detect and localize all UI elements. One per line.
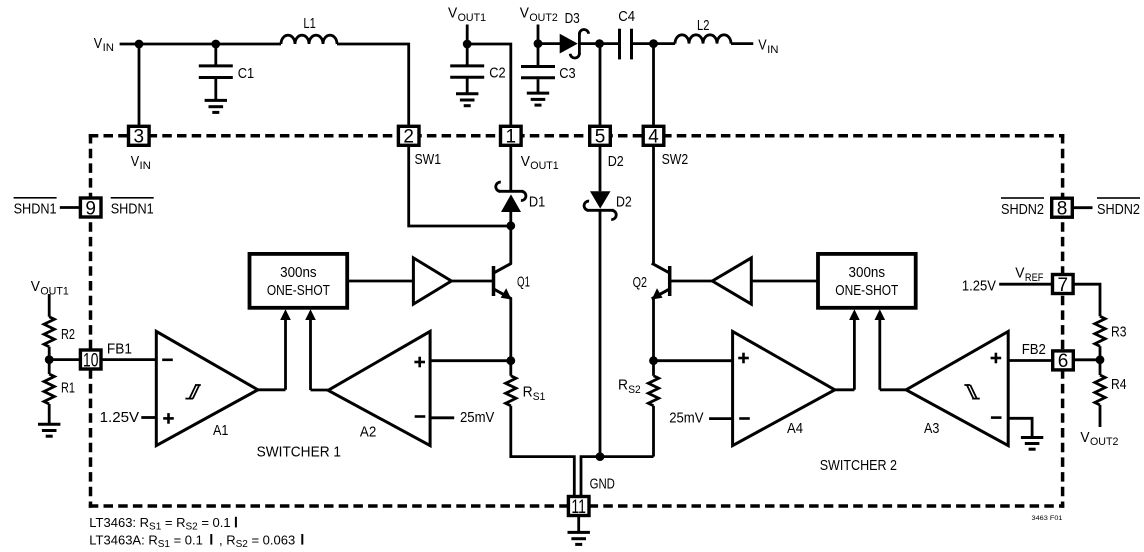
wire D1 node to Q1 collector — [509, 225, 512, 264]
overline SHDN1 pin name — [111, 197, 154, 199]
svg-text:REF: REF — [1025, 272, 1044, 284]
resistor RS2 — [648, 376, 658, 406]
svg-text:V: V — [448, 4, 457, 21]
wire A3 - input to ground — [1008, 418, 1032, 437]
diode D2 (Schottky) — [584, 191, 616, 219]
wire D3 node down to pin 5 — [599, 44, 602, 125]
arrow A3 to one-shot 2 — [878, 318, 881, 390]
wire pin 8 to SHDN2 label — [1073, 206, 1093, 209]
wire node to pin 1 — [467, 44, 511, 125]
wire one-shot 2 to buffer 2 — [751, 280, 818, 283]
svg-text:L1: L1 — [303, 15, 315, 32]
svg-text:R4: R4 — [1111, 376, 1127, 393]
ground at C2 — [456, 94, 478, 106]
ground at C3 — [527, 93, 549, 105]
svg-text:V: V — [758, 37, 766, 54]
diode D3 (Schottky) — [560, 29, 589, 58]
wire R2 bottom through node to R1 top — [48, 347, 51, 374]
ground at A3 — [1021, 438, 1043, 450]
svg-text:300ns: 300ns — [280, 265, 317, 281]
wire A4 output to one-shot 2 arrow — [835, 388, 855, 391]
svg-text:25mV: 25mV — [669, 410, 703, 427]
svg-text:Q2: Q2 — [633, 274, 647, 291]
svg-text:1.25V: 1.25V — [100, 409, 140, 426]
svg-text:2: 2 — [403, 127, 414, 148]
buffer 2 — [712, 258, 751, 304]
svg-text:7: 7 — [1058, 275, 1069, 296]
ground at C1 — [205, 100, 227, 112]
svg-text:C3: C3 — [559, 65, 575, 82]
wire pin 10 to A1 inverting input — [102, 358, 156, 361]
resistor R4 — [1095, 375, 1105, 405]
svg-text:SW2: SW2 — [662, 151, 689, 168]
note line 1 — [89, 515, 303, 550]
wire C3 stem — [537, 44, 540, 66]
svg-text:1.25V: 1.25V — [962, 277, 996, 294]
svg-text:V: V — [521, 153, 530, 170]
ground at R1 — [38, 424, 60, 436]
svg-text:, RS2 = 0.063: , RS2 = 0.063 — [219, 532, 295, 550]
svg-text:9: 9 — [85, 198, 96, 219]
svg-text:C1: C1 — [238, 65, 254, 82]
arrow A1 to one-shot — [284, 318, 287, 390]
wire 25mV to A4 - input — [709, 417, 733, 420]
svg-text:OUT1: OUT1 — [458, 12, 486, 24]
A1 minus — [162, 358, 173, 361]
wire C2 stem — [466, 44, 469, 65]
svg-text:V: V — [31, 278, 40, 295]
svg-text:D3: D3 — [565, 10, 580, 27]
wire D3 to C4 — [580, 42, 619, 45]
svg-text:R2: R2 — [61, 326, 75, 343]
A2 plus — [414, 357, 425, 368]
resistor RS1 — [506, 376, 516, 406]
svg-text:S1: S1 — [533, 391, 546, 403]
wire 1.25V to A1 non-inverting input — [141, 416, 156, 419]
wire sense node 2 to RS2 — [652, 361, 655, 376]
svg-text:V: V — [131, 153, 139, 170]
wire node to pin 10 — [49, 358, 80, 361]
wire Q1 emitter down to sense node — [509, 298, 512, 361]
capacitor C3 — [521, 67, 555, 78]
op-amp A4 — [733, 331, 835, 445]
wire D2 anode down to GND rail — [599, 212, 602, 457]
capacitor C2 — [450, 66, 484, 77]
svg-text:1: 1 — [506, 127, 517, 148]
svg-text:SHDN1: SHDN1 — [14, 201, 57, 218]
note line 1 ohm bar — [235, 517, 237, 528]
svg-text:OUT1: OUT1 — [40, 285, 68, 297]
A4 plus — [738, 353, 749, 364]
A1 plus — [163, 413, 174, 424]
A4 minus — [739, 417, 750, 420]
svg-text:5: 5 — [595, 127, 606, 148]
svg-text:SW1: SW1 — [415, 151, 442, 168]
wire 1.25V to pin 7 — [999, 283, 1052, 286]
svg-text:R1: R1 — [61, 380, 75, 397]
overline SHDN1 outside — [14, 197, 57, 199]
svg-text:25mV: 25mV — [460, 409, 494, 426]
svg-text:V: V — [1015, 265, 1024, 282]
resistor R2 — [44, 317, 54, 347]
svg-text:IN: IN — [767, 44, 778, 56]
svg-text:ONE-SHOT: ONE-SHOT — [835, 283, 898, 299]
svg-text:A3: A3 — [924, 420, 939, 437]
svg-text:V: V — [520, 4, 529, 21]
wire RS2 bottom to GND rail — [652, 406, 655, 457]
wire D1 anode to node — [509, 212, 512, 227]
wire Q2 emitter down to sense node 2 — [652, 298, 655, 361]
one-shot block 1 — [250, 254, 348, 308]
svg-text:Q1: Q1 — [517, 273, 530, 290]
svg-text:A2: A2 — [360, 424, 376, 441]
wire node to D3 — [538, 42, 561, 45]
wire SHDN1 label to pin 9 — [60, 206, 80, 209]
wire pin 1 down to D1 cathode — [509, 147, 512, 191]
A3 hysteresis symbol — [964, 385, 979, 399]
transistor Q1 — [494, 263, 512, 299]
svg-text:3: 3 — [134, 127, 145, 148]
note line 2 ohm bar a — [210, 534, 212, 545]
wire A1 output to one-shot arrow — [258, 388, 286, 391]
arrowhead A1 to one-shot — [280, 309, 291, 320]
ground at pin 11 — [568, 517, 590, 545]
wire one-shot 1 to buffer 1 — [347, 280, 413, 283]
wire VOUT1 top to node — [466, 25, 469, 45]
wire GND rail right segment — [581, 457, 654, 496]
svg-text:OUT2: OUT2 — [1090, 436, 1118, 448]
svg-text:ONE-SHOT: ONE-SHOT — [267, 283, 330, 299]
svg-text:3463 F01: 3463 F01 — [1032, 515, 1063, 522]
svg-text:OUT2: OUT2 — [529, 12, 557, 24]
resistor R3 — [1095, 316, 1105, 346]
arrowhead A3 to one-shot 2 — [875, 309, 886, 320]
wire A3 + input to pin 6 — [1008, 359, 1052, 362]
wire C1 stem top — [214, 44, 217, 65]
svg-text:V: V — [94, 35, 102, 52]
wire L1 to pin 2 — [337, 44, 409, 125]
capacitor C4 — [620, 29, 632, 60]
svg-text:OUT1: OUT1 — [530, 160, 558, 172]
svg-text:L2: L2 — [697, 17, 709, 34]
wire pin 2 down to D1 node — [409, 147, 510, 226]
svg-text:SWITCHER 2: SWITCHER 2 — [820, 457, 897, 474]
wire A2 + input to sense node — [430, 359, 511, 362]
svg-text:6: 6 — [1058, 351, 1069, 372]
wire sense node 2 to A4 + input — [654, 359, 733, 362]
wire A2 output to one-shot arrow — [311, 389, 329, 392]
wire sense node to RS1 — [509, 361, 512, 376]
inductor L2 — [675, 35, 731, 44]
resistor R1 — [44, 374, 54, 404]
svg-text:GND: GND — [590, 476, 615, 493]
svg-text:D1: D1 — [529, 194, 545, 211]
inductor L1 — [281, 35, 337, 44]
A3 plus — [991, 353, 1002, 364]
wire A3 output to one-shot 2 arrow — [880, 388, 906, 391]
wire R3 bottom through node to R4 — [1099, 346, 1102, 375]
buffer 1 — [413, 258, 451, 304]
A2 minus — [415, 415, 426, 418]
arrowhead A2 to one-shot — [305, 309, 316, 320]
wire A2 - input to 25mV — [430, 416, 454, 419]
wire VOUT1 left label down to R2 — [48, 294, 51, 317]
arrow A4 to one-shot 2 — [853, 318, 856, 390]
wire R4 bottom to VOUT2 — [1099, 405, 1102, 427]
wire L2 to VIN right — [731, 42, 753, 45]
svg-text:SHDN1: SHDN1 — [111, 201, 154, 218]
svg-text:D2: D2 — [616, 194, 632, 211]
wire VIN node to pin 3 — [138, 44, 141, 125]
svg-text:FB2: FB2 — [1022, 341, 1046, 358]
svg-text:R: R — [523, 384, 533, 401]
svg-text:4: 4 — [648, 127, 659, 148]
pin boxes — [80, 126, 1073, 515]
svg-text:IN: IN — [140, 160, 151, 172]
wire RS1 bottom to GND rail — [511, 406, 575, 496]
svg-text:10: 10 — [83, 350, 98, 371]
wire C4 node down to pin 4 — [652, 44, 655, 125]
arrowhead A4 to one-shot 2 — [849, 309, 860, 320]
capacitor C1 — [199, 66, 233, 78]
svg-text:11: 11 — [571, 497, 586, 518]
svg-text:C4: C4 — [618, 8, 635, 25]
svg-text:R3: R3 — [1111, 324, 1127, 341]
A1 hysteresis symbol — [185, 385, 200, 399]
junction node dots — [45, 39, 1105, 461]
svg-text:R: R — [618, 377, 628, 394]
overline SHDN2 pin name — [1001, 197, 1044, 199]
svg-text:SWITCHER 1: SWITCHER 1 — [257, 444, 341, 461]
svg-text:300ns: 300ns — [849, 265, 886, 281]
wire buffer 2 to Q2 base — [670, 280, 713, 283]
op-amp A1 — [156, 331, 258, 445]
op-amp A3 — [906, 331, 1008, 445]
wire pin 7 to R3 — [1074, 284, 1100, 316]
overline SHDN2 outside — [1097, 197, 1140, 199]
one-shot block 2 — [818, 254, 916, 308]
wire buffer 1 to Q1 base — [451, 280, 493, 283]
svg-text:A4: A4 — [787, 420, 803, 437]
note line 2 ohm bar b — [301, 534, 303, 545]
wire C4 to L2 — [633, 42, 675, 45]
svg-text:8: 8 — [1057, 199, 1068, 220]
IC boundary dashed box — [89, 134, 1064, 508]
wire pin 4 down to Q2 collector — [652, 147, 655, 264]
wire C1 stem bottom — [214, 79, 217, 100]
svg-text:D2: D2 — [608, 153, 624, 170]
A3 minus — [991, 416, 1002, 419]
transistor Q2 — [652, 263, 670, 299]
svg-text:SHDN2: SHDN2 — [1001, 201, 1044, 218]
svg-text:S2: S2 — [628, 384, 641, 396]
op-amp A2 — [328, 331, 430, 445]
svg-text:SHDN2: SHDN2 — [1097, 201, 1140, 218]
wire VIN left to L1 — [120, 43, 281, 46]
arrow A2 to one-shot — [309, 318, 312, 391]
wire R1 bottom to ground — [48, 404, 51, 424]
wire node to pin 6 — [1074, 358, 1100, 361]
diode D1 (Schottky) — [496, 182, 526, 212]
svg-text:LT3463A: RS1 = 0.1: LT3463A: RS1 = 0.1 — [89, 532, 203, 550]
svg-text:IN: IN — [103, 42, 114, 54]
svg-text:V: V — [1080, 429, 1089, 446]
svg-text:FB1: FB1 — [107, 340, 132, 357]
wire pin 5 down to D2 — [599, 147, 602, 192]
svg-text:C2: C2 — [489, 64, 505, 81]
wire VOUT2 top to node — [537, 25, 540, 44]
svg-text:A1: A1 — [213, 422, 228, 439]
